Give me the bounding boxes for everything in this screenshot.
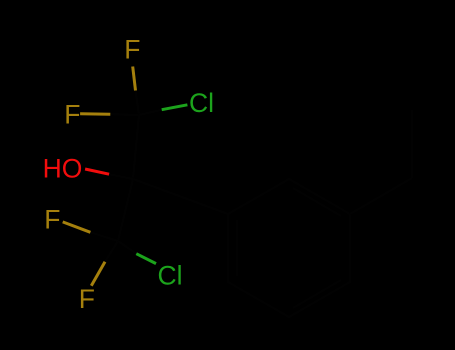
wire ring to substituent carbon (dark) xyxy=(350,178,412,214)
bond half to F1 (olive) xyxy=(133,67,136,91)
svg-text:HO: HO xyxy=(43,154,83,184)
wire C3 to F4 midpoint (carbon half, dark) xyxy=(105,241,118,262)
benzene ring (dark carbon skeleton) xyxy=(228,179,350,317)
wire C2 to ring ipso carbon (dark) xyxy=(133,179,228,214)
svg-text:F: F xyxy=(44,204,60,234)
bond half to HO (red) xyxy=(85,169,109,174)
aromatic inner bond 1 xyxy=(293,188,341,216)
wire C2 to HO midpoint (carbon half, dark) xyxy=(109,174,133,179)
svg-text:Cl: Cl xyxy=(158,260,183,290)
svg-text:F: F xyxy=(79,284,95,314)
bond half to F3 (olive) xyxy=(63,222,91,232)
wire C3 to F3 midpoint (carbon half, dark) xyxy=(90,232,118,241)
aromatic inner bond 2 xyxy=(293,280,341,308)
bond half to Cl1 (green) xyxy=(162,105,188,110)
svg-text:Cl: Cl xyxy=(189,88,214,118)
wire C1 to F1 midpoint (carbon half, dark) xyxy=(136,91,140,116)
aromatic inner bond 3 xyxy=(236,220,238,276)
svg-text:F: F xyxy=(124,34,140,64)
wire substituent methyl (dark) xyxy=(411,110,413,178)
bond half to F4 (olive) xyxy=(91,262,105,286)
wire C2-C3 bond (carbon-carbon, dark) xyxy=(118,179,133,241)
wire C3 to Cl2 midpoint (carbon half, dark) xyxy=(118,241,136,254)
bond half to F2 (olive) xyxy=(80,112,110,115)
svg-text:F: F xyxy=(64,99,80,129)
bond half to Cl2 (green) xyxy=(136,254,156,264)
wire C1 to F2 midpoint (carbon half, dark) xyxy=(110,113,139,116)
wire C1 to Cl1 midpoint (carbon half, dark) xyxy=(139,110,162,115)
wire C1-C2 bond (carbon-carbon, dark) xyxy=(133,115,139,179)
